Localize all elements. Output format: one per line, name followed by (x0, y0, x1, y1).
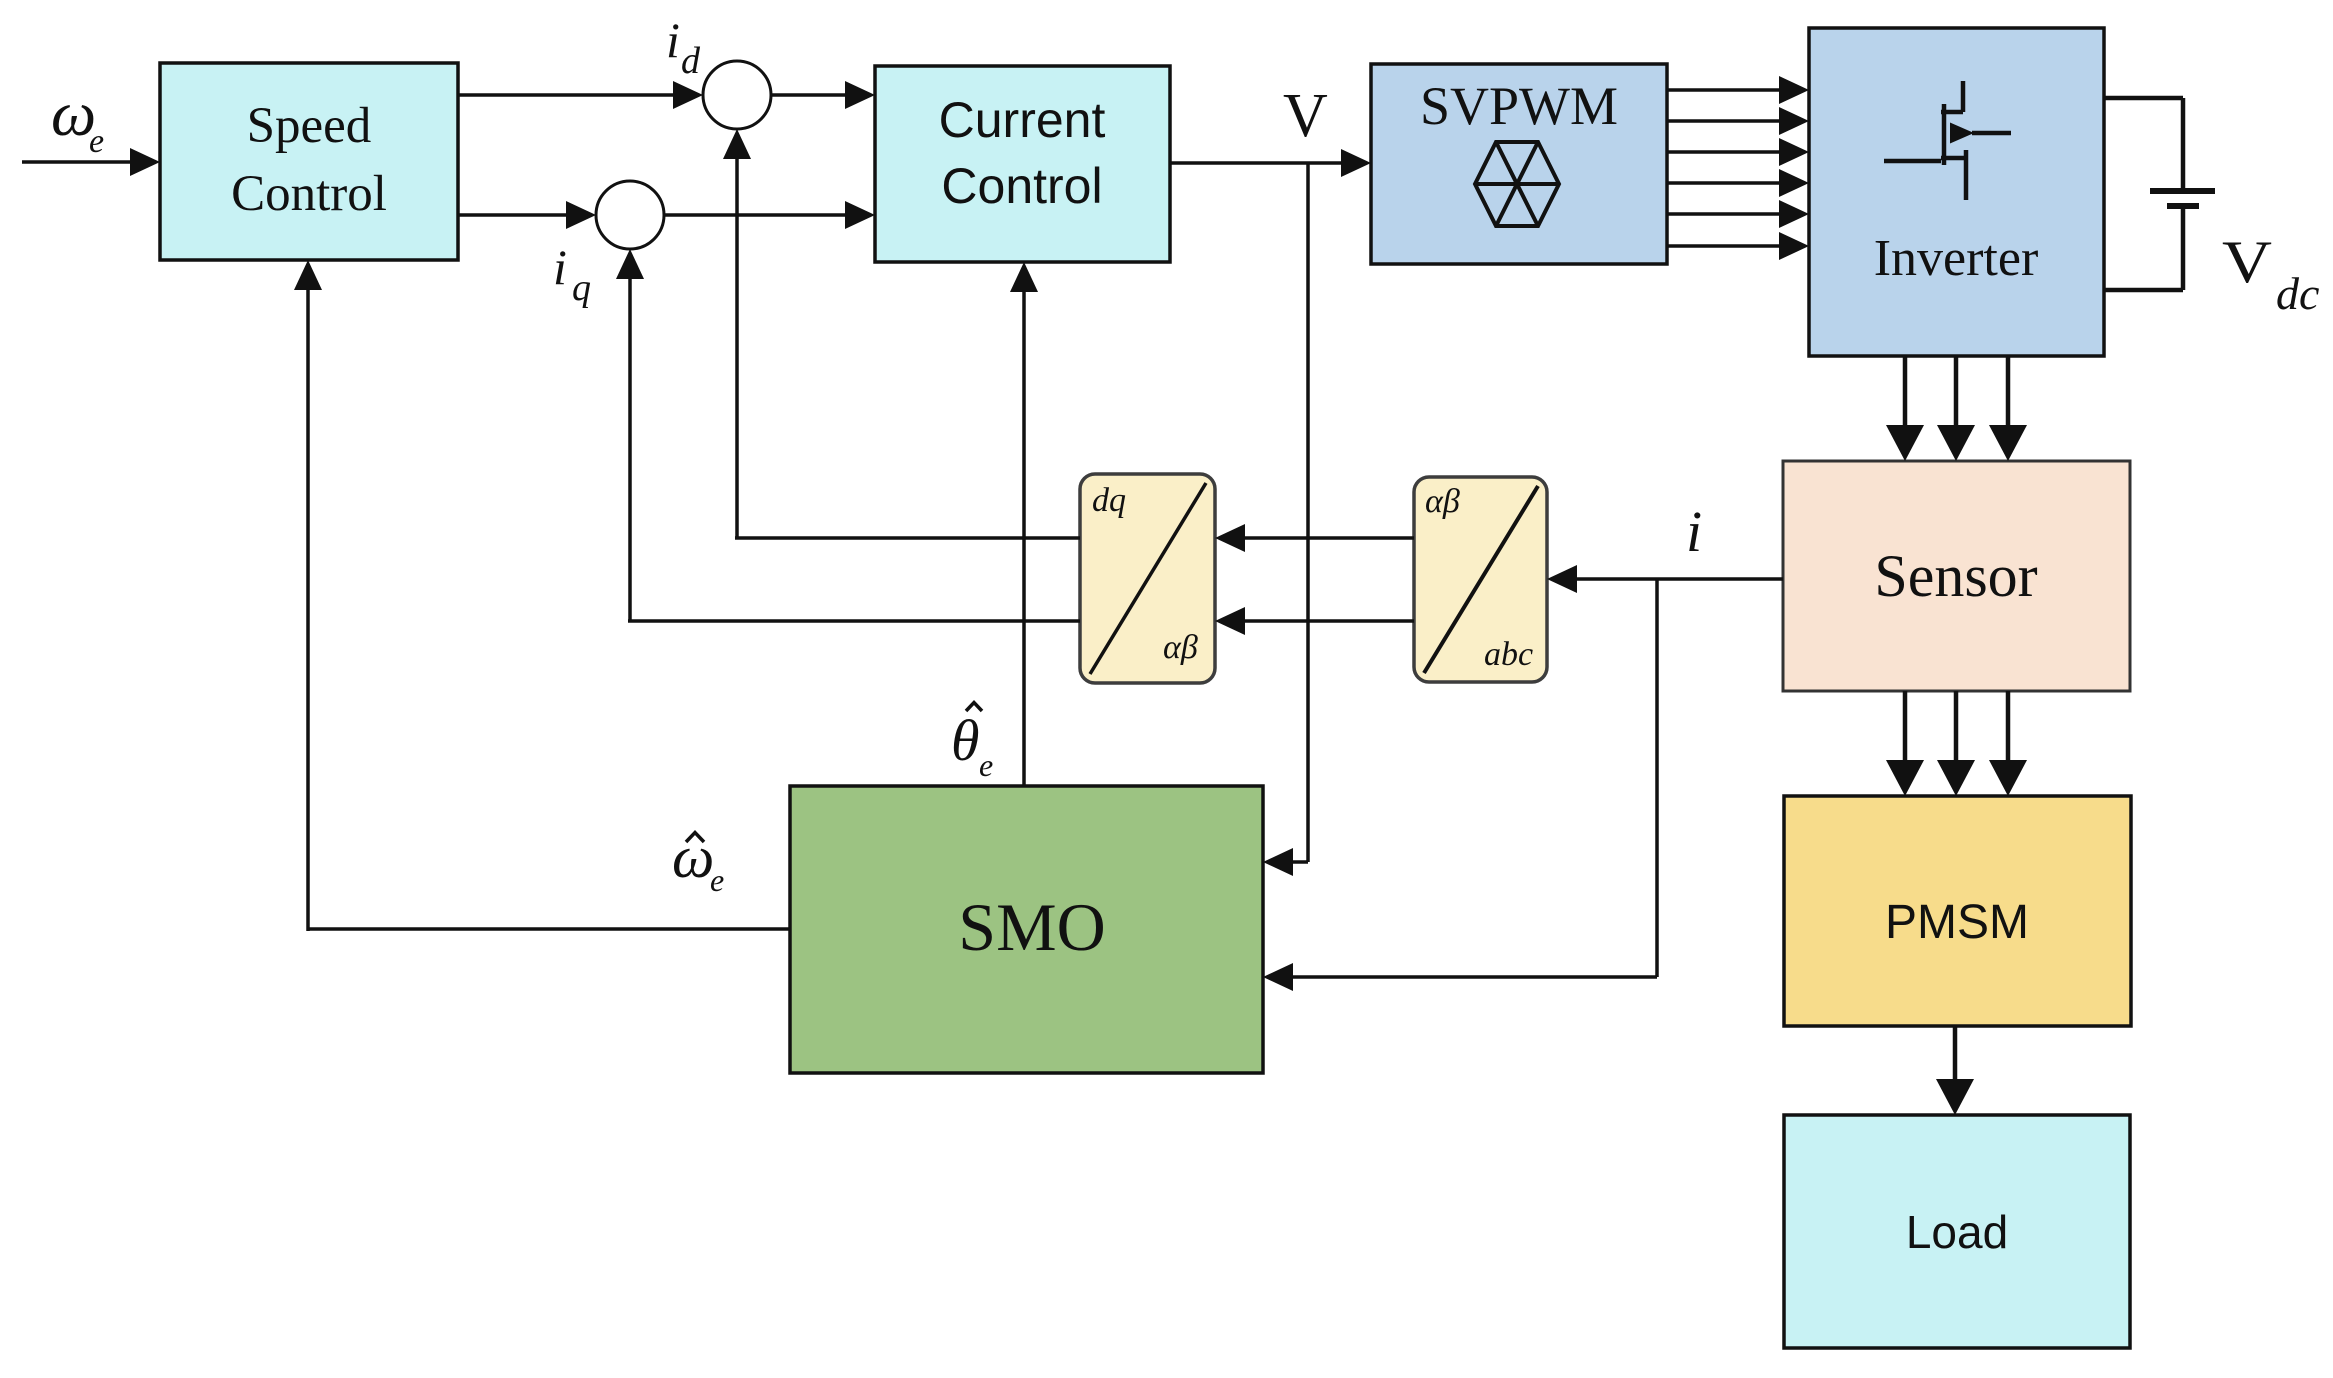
svg-text:Control: Control (231, 166, 387, 222)
block PMSM (1784, 796, 2131, 1026)
battery V_dc symbol (2150, 191, 2215, 206)
wire battery negative lead back to Inverter (2104, 206, 2183, 290)
svg-text:Control: Control (941, 158, 1102, 214)
wire i_d summing junction to Current Control (771, 81, 875, 109)
svg-text:PMSM: PMSM (1885, 896, 2029, 949)
label theta_e hat (951, 703, 993, 784)
wire omega_e estimate from SMO left into Speed Control (294, 260, 790, 931)
svg-text:Speed: Speed (247, 98, 372, 154)
wire feedback riser up into i_d summing junction (723, 129, 751, 538)
svg-text:SVPWM: SVPWM (1420, 76, 1618, 136)
label omega_e hat (672, 824, 724, 898)
hexagon icon inside SVPWM (1475, 142, 1559, 226)
wire Inverter phase C down to Sensor (1989, 356, 2027, 461)
wire theta_e estimate from SMO up into Current Control (1010, 262, 1038, 786)
wire SVPWM to Inverter gate line 2 (1667, 107, 1809, 135)
svg-text:Inverter: Inverter (1874, 230, 2039, 287)
svg-text:dc: dc (2276, 268, 2319, 319)
svg-text:Load: Load (1906, 1206, 2008, 1258)
svg-text:d: d (681, 40, 701, 82)
wire omega_e reference input into Speed Control (22, 148, 160, 176)
wire Sensor phase A down to PMSM (1886, 691, 1924, 796)
svg-text:i: i (666, 12, 680, 68)
block Current Control (875, 66, 1170, 262)
wire SVPWM to Inverter gate line 3 (1667, 138, 1809, 166)
wire Inverter phase A down to Sensor (1886, 356, 1924, 461)
svg-text:V: V (1283, 82, 1328, 150)
block Inverter (1809, 28, 2104, 356)
wire dq block upper output to i_d riser corner (735, 536, 1080, 540)
wire Sensor current i output to alpha-beta/abc block (1547, 565, 1783, 593)
label V_dc (2222, 229, 2319, 319)
wire i_q summing junction to Current Control (664, 201, 875, 229)
wire Speed Control lower output to i_q summing junction (458, 201, 596, 229)
svg-text:V: V (2222, 229, 2272, 295)
wire feedback riser up into i_q summing junction (616, 249, 644, 621)
summing junction for i_d (703, 61, 771, 129)
svg-text:dq: dq (1092, 482, 1126, 519)
block alpha-beta to abc transform (1414, 477, 1547, 682)
summing junction for i_q (596, 181, 664, 249)
wire dq block lower output to i_q riser corner (628, 619, 1080, 623)
label i_q (553, 239, 591, 309)
svg-text:abc: abc (1484, 636, 1533, 673)
block Sensor (1783, 461, 2130, 691)
wire Sensor phase B down to PMSM (1937, 691, 1975, 796)
svg-text:θ: θ (951, 708, 980, 773)
label i_d (666, 12, 701, 82)
wire Speed Control upper output to i_d summing junction (458, 81, 703, 109)
wire Inverter to battery positive lead (2104, 98, 2183, 191)
svg-text:αβ: αβ (1163, 629, 1198, 666)
wire Sensor phase C down to PMSM (1989, 691, 2027, 796)
wire SVPWM to Inverter gate line 1 (1667, 76, 1809, 104)
block SMO (sliding mode observer) (790, 786, 1263, 1073)
wire SVPWM to Inverter gate line 4 (1667, 169, 1809, 197)
wire SVPWM to Inverter gate line 5 (1667, 200, 1809, 228)
wire Current Control V output to SVPWM (1170, 149, 1371, 177)
svg-text:i: i (553, 239, 567, 295)
block Load (1784, 1115, 2130, 1348)
svg-text:q: q (572, 267, 591, 309)
node i branch junction and wire down into SMO right side (1263, 579, 1657, 991)
svg-text:SMO: SMO (958, 889, 1105, 965)
block Speed Control (160, 63, 458, 260)
transistor Q1 (MOSFET icon inside Inverter) (1884, 81, 2011, 200)
svg-text:e: e (710, 862, 724, 898)
wire SVPWM to Inverter gate line 6 (1667, 232, 1809, 260)
block dq to alpha-beta transform (1080, 474, 1215, 683)
wire Inverter phase B down to Sensor (1937, 356, 1975, 461)
svg-text:e: e (89, 123, 104, 160)
wire alpha-beta block to dq block lower channel (1215, 607, 1414, 635)
svg-text:Current: Current (939, 92, 1106, 148)
label omega_e (51, 78, 104, 160)
svg-text:i: i (1686, 499, 1702, 564)
block SVPWM (1371, 64, 1667, 264)
node V branch junction and wire down into SMO right side (1263, 163, 1308, 876)
svg-text:αβ: αβ (1425, 483, 1460, 520)
svg-text:e: e (979, 747, 993, 783)
svg-text:Sensor: Sensor (1874, 543, 2037, 609)
wire PMSM shaft down to Load (1936, 1026, 1974, 1115)
wire alpha-beta block to dq block upper channel (1215, 524, 1414, 552)
